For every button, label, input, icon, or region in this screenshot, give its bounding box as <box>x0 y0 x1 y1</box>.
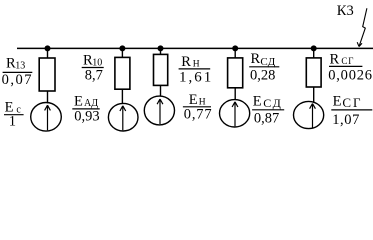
label ESG fraction line <box>331 109 372 111</box>
svg-text:СГ: СГ <box>341 56 354 66</box>
label RSD value 0,28 <box>250 67 275 83</box>
EMF source Ec arrow <box>45 105 51 130</box>
label ESD numerator <box>253 94 283 111</box>
label RSG numerator <box>330 52 355 68</box>
resistor R13 body <box>39 58 55 91</box>
wire branch 2 top stub <box>121 48 123 57</box>
EMF source ESD circle <box>220 100 250 127</box>
svg-text:8,7: 8,7 <box>85 67 103 83</box>
label R13 value 0,07 <box>2 72 33 88</box>
label Ec value 1 <box>9 114 16 130</box>
short-circuit lightning arrow <box>357 8 367 46</box>
svg-text:Е: Е <box>253 94 262 110</box>
svg-text:R: R <box>181 54 191 70</box>
node junction dot branch 3 <box>158 45 164 51</box>
resistor Rn body <box>154 54 168 85</box>
EMF source En arrow <box>157 99 163 124</box>
svg-text:R: R <box>251 51 261 67</box>
wire branch 5 bottom stub <box>313 87 315 103</box>
label RSG value 0,0026 <box>328 67 373 83</box>
svg-text:Е: Е <box>74 93 83 109</box>
wire branch 1 top stub <box>47 48 49 58</box>
svg-text:Н: Н <box>193 59 200 69</box>
svg-text:0,28: 0,28 <box>250 67 275 83</box>
node junction dot branch 2 <box>119 45 125 51</box>
label RSG fraction line <box>329 65 362 67</box>
label Ec fraction line <box>4 114 24 116</box>
svg-text:1,07: 1,07 <box>332 112 360 128</box>
node junction dot branch 1 <box>45 45 51 51</box>
label ESG value 1,07 <box>332 112 360 128</box>
label Rn numerator <box>181 54 200 70</box>
svg-text:R: R <box>330 52 340 68</box>
resistor RSG body <box>306 58 321 87</box>
resistor RSD body <box>228 58 243 88</box>
svg-text:СД: СД <box>260 56 276 68</box>
EMF source Ec circle <box>31 103 62 132</box>
label R10 value 8,7 <box>85 67 103 83</box>
svg-text:0,77: 0,77 <box>184 107 213 123</box>
label K3 short-circuit <box>337 3 354 19</box>
label Rn value 1,61 <box>179 69 213 85</box>
wire top bus <box>17 47 373 49</box>
label En numerator <box>189 92 206 108</box>
wire branch 3 bottom stub <box>160 85 162 96</box>
label ESD value 0,87 <box>254 110 279 126</box>
svg-text:К3: К3 <box>337 3 354 19</box>
EMF source ESG circle <box>294 101 324 128</box>
label EAD fraction line <box>72 108 99 110</box>
svg-text:1,61: 1,61 <box>179 69 213 85</box>
svg-text:СГ: СГ <box>342 95 362 110</box>
label R13 numerator <box>6 56 25 72</box>
label RSD numerator <box>251 51 276 68</box>
label ESG numerator <box>333 94 363 111</box>
EMF source ESD arrow <box>232 102 238 127</box>
wire branch 4 top stub <box>234 48 236 58</box>
label En fraction line <box>183 106 211 108</box>
label Rn fraction line <box>179 68 211 70</box>
svg-text:0,07: 0,07 <box>2 72 33 88</box>
label Ec numerator <box>5 100 22 116</box>
svg-text:0,0026: 0,0026 <box>328 67 373 83</box>
node junction dot branch 5 <box>311 45 317 51</box>
svg-text:0,87: 0,87 <box>254 110 279 126</box>
wire branch 5 top stub <box>313 48 315 58</box>
wire branch 2 bottom stub <box>121 89 123 104</box>
svg-text:0,93: 0,93 <box>74 108 99 124</box>
label ESD fraction line <box>252 109 284 111</box>
svg-text:Е: Е <box>333 94 342 110</box>
svg-text:1: 1 <box>9 114 16 130</box>
label EAD numerator <box>74 93 98 109</box>
svg-text:СД: СД <box>263 96 283 110</box>
label RSD fraction line <box>249 66 279 68</box>
EMF source EAD arrow <box>120 106 126 131</box>
wire branch 1 bottom stub <box>47 91 49 103</box>
label En value 0,77 <box>184 107 213 123</box>
label R10 fraction line <box>82 67 104 69</box>
wire branch 3 top stub <box>160 48 162 54</box>
EMF source En circle <box>144 96 174 125</box>
svg-text:13: 13 <box>15 60 25 71</box>
label EAD value 0,93 <box>74 108 99 124</box>
EMF source ESG arrow <box>310 104 316 128</box>
node junction dot branch 4 <box>232 45 238 51</box>
wire branch 4 bottom stub <box>234 88 236 100</box>
resistor R10 body <box>115 57 130 89</box>
label R10 numerator <box>83 53 102 69</box>
svg-text:с: с <box>16 104 21 115</box>
EMF source EAD circle <box>108 103 138 131</box>
label R13 fraction line <box>3 71 33 73</box>
